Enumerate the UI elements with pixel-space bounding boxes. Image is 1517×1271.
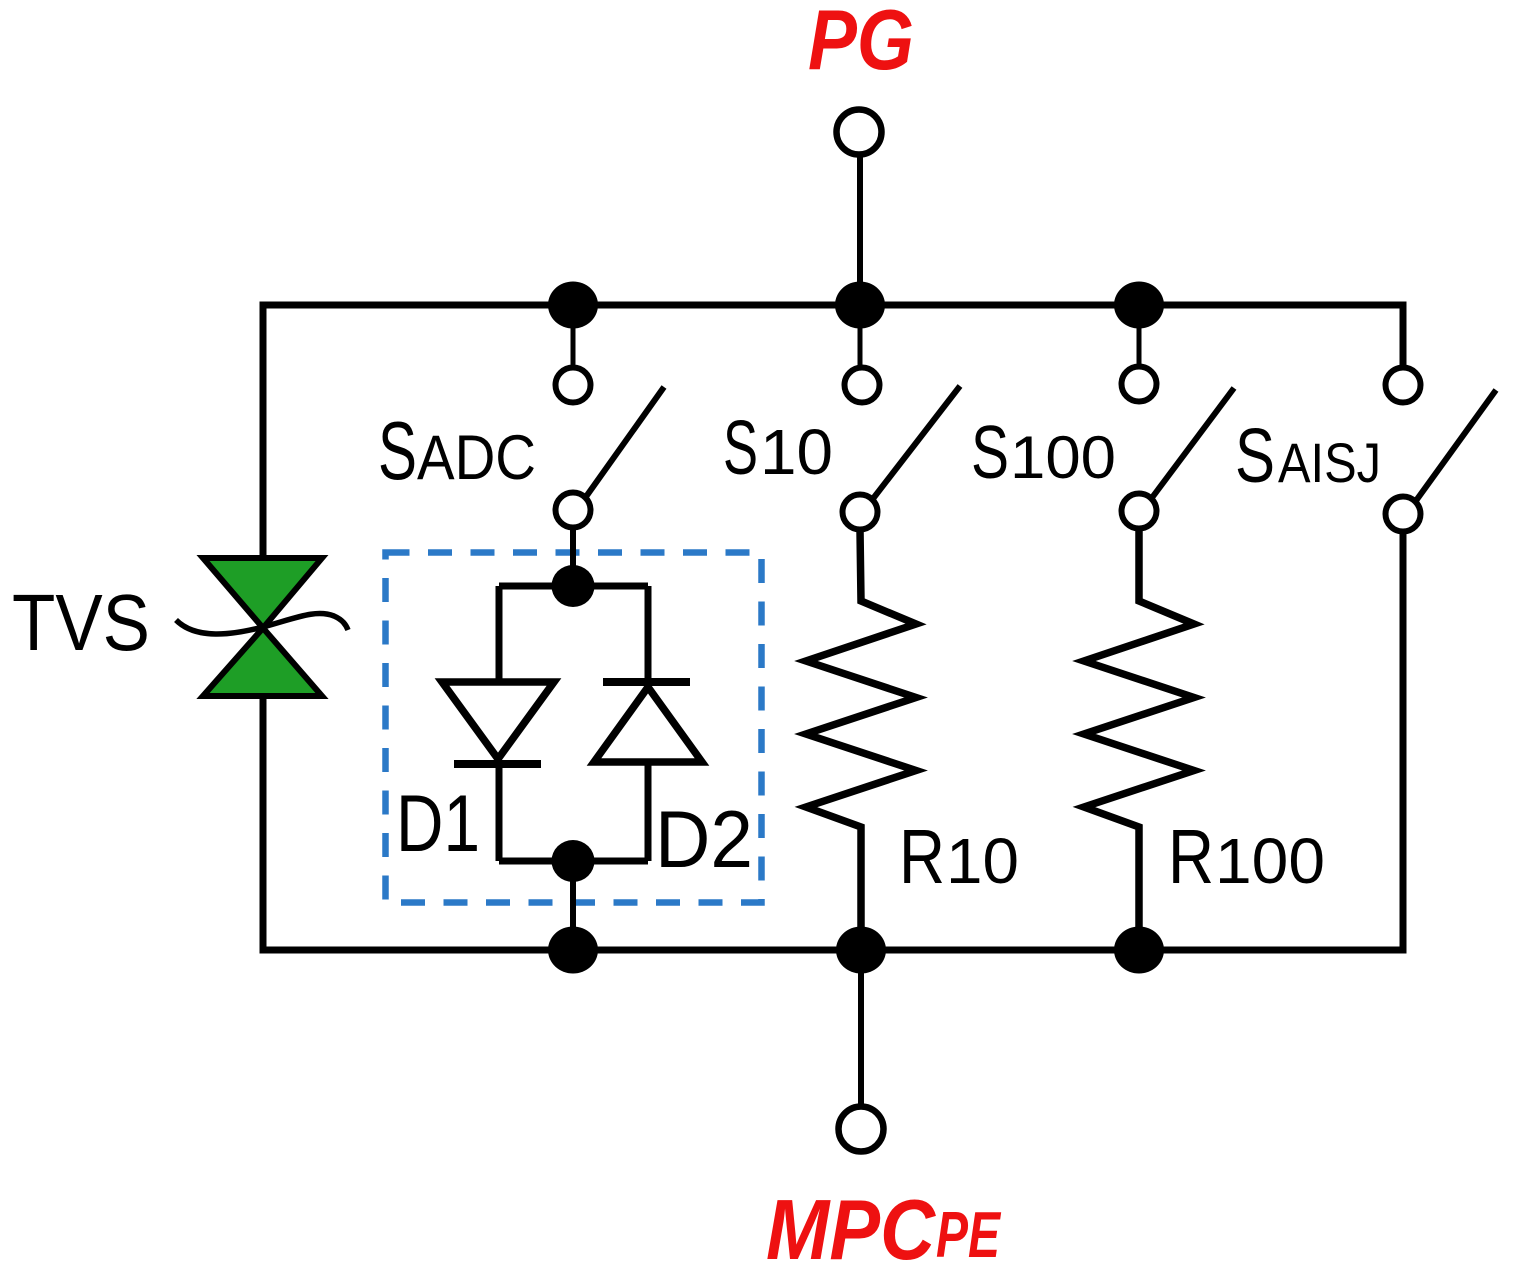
- svg-text:D1: D1: [396, 779, 480, 869]
- svg-text:TVS: TVS: [12, 578, 150, 667]
- svg-text:D2: D2: [655, 795, 753, 885]
- svg-text:R: R: [899, 814, 945, 900]
- svg-text:AISJ: AISJ: [1278, 431, 1381, 494]
- svg-text:R: R: [1168, 814, 1214, 900]
- svg-text:10: 10: [946, 825, 1019, 897]
- svg-text:S: S: [723, 405, 758, 491]
- svg-text:10: 10: [760, 416, 833, 488]
- svg-text:PE: PE: [936, 1198, 1001, 1271]
- svg-text:ADC: ADC: [417, 423, 536, 493]
- svg-text:S: S: [971, 410, 1009, 494]
- svg-text:PG: PG: [808, 0, 914, 88]
- svg-text:S: S: [1235, 413, 1275, 499]
- svg-text:S: S: [378, 404, 417, 497]
- svg-text:100: 100: [1010, 424, 1116, 491]
- svg-text:MPC: MPC: [766, 1183, 936, 1271]
- svg-text:100: 100: [1215, 825, 1325, 897]
